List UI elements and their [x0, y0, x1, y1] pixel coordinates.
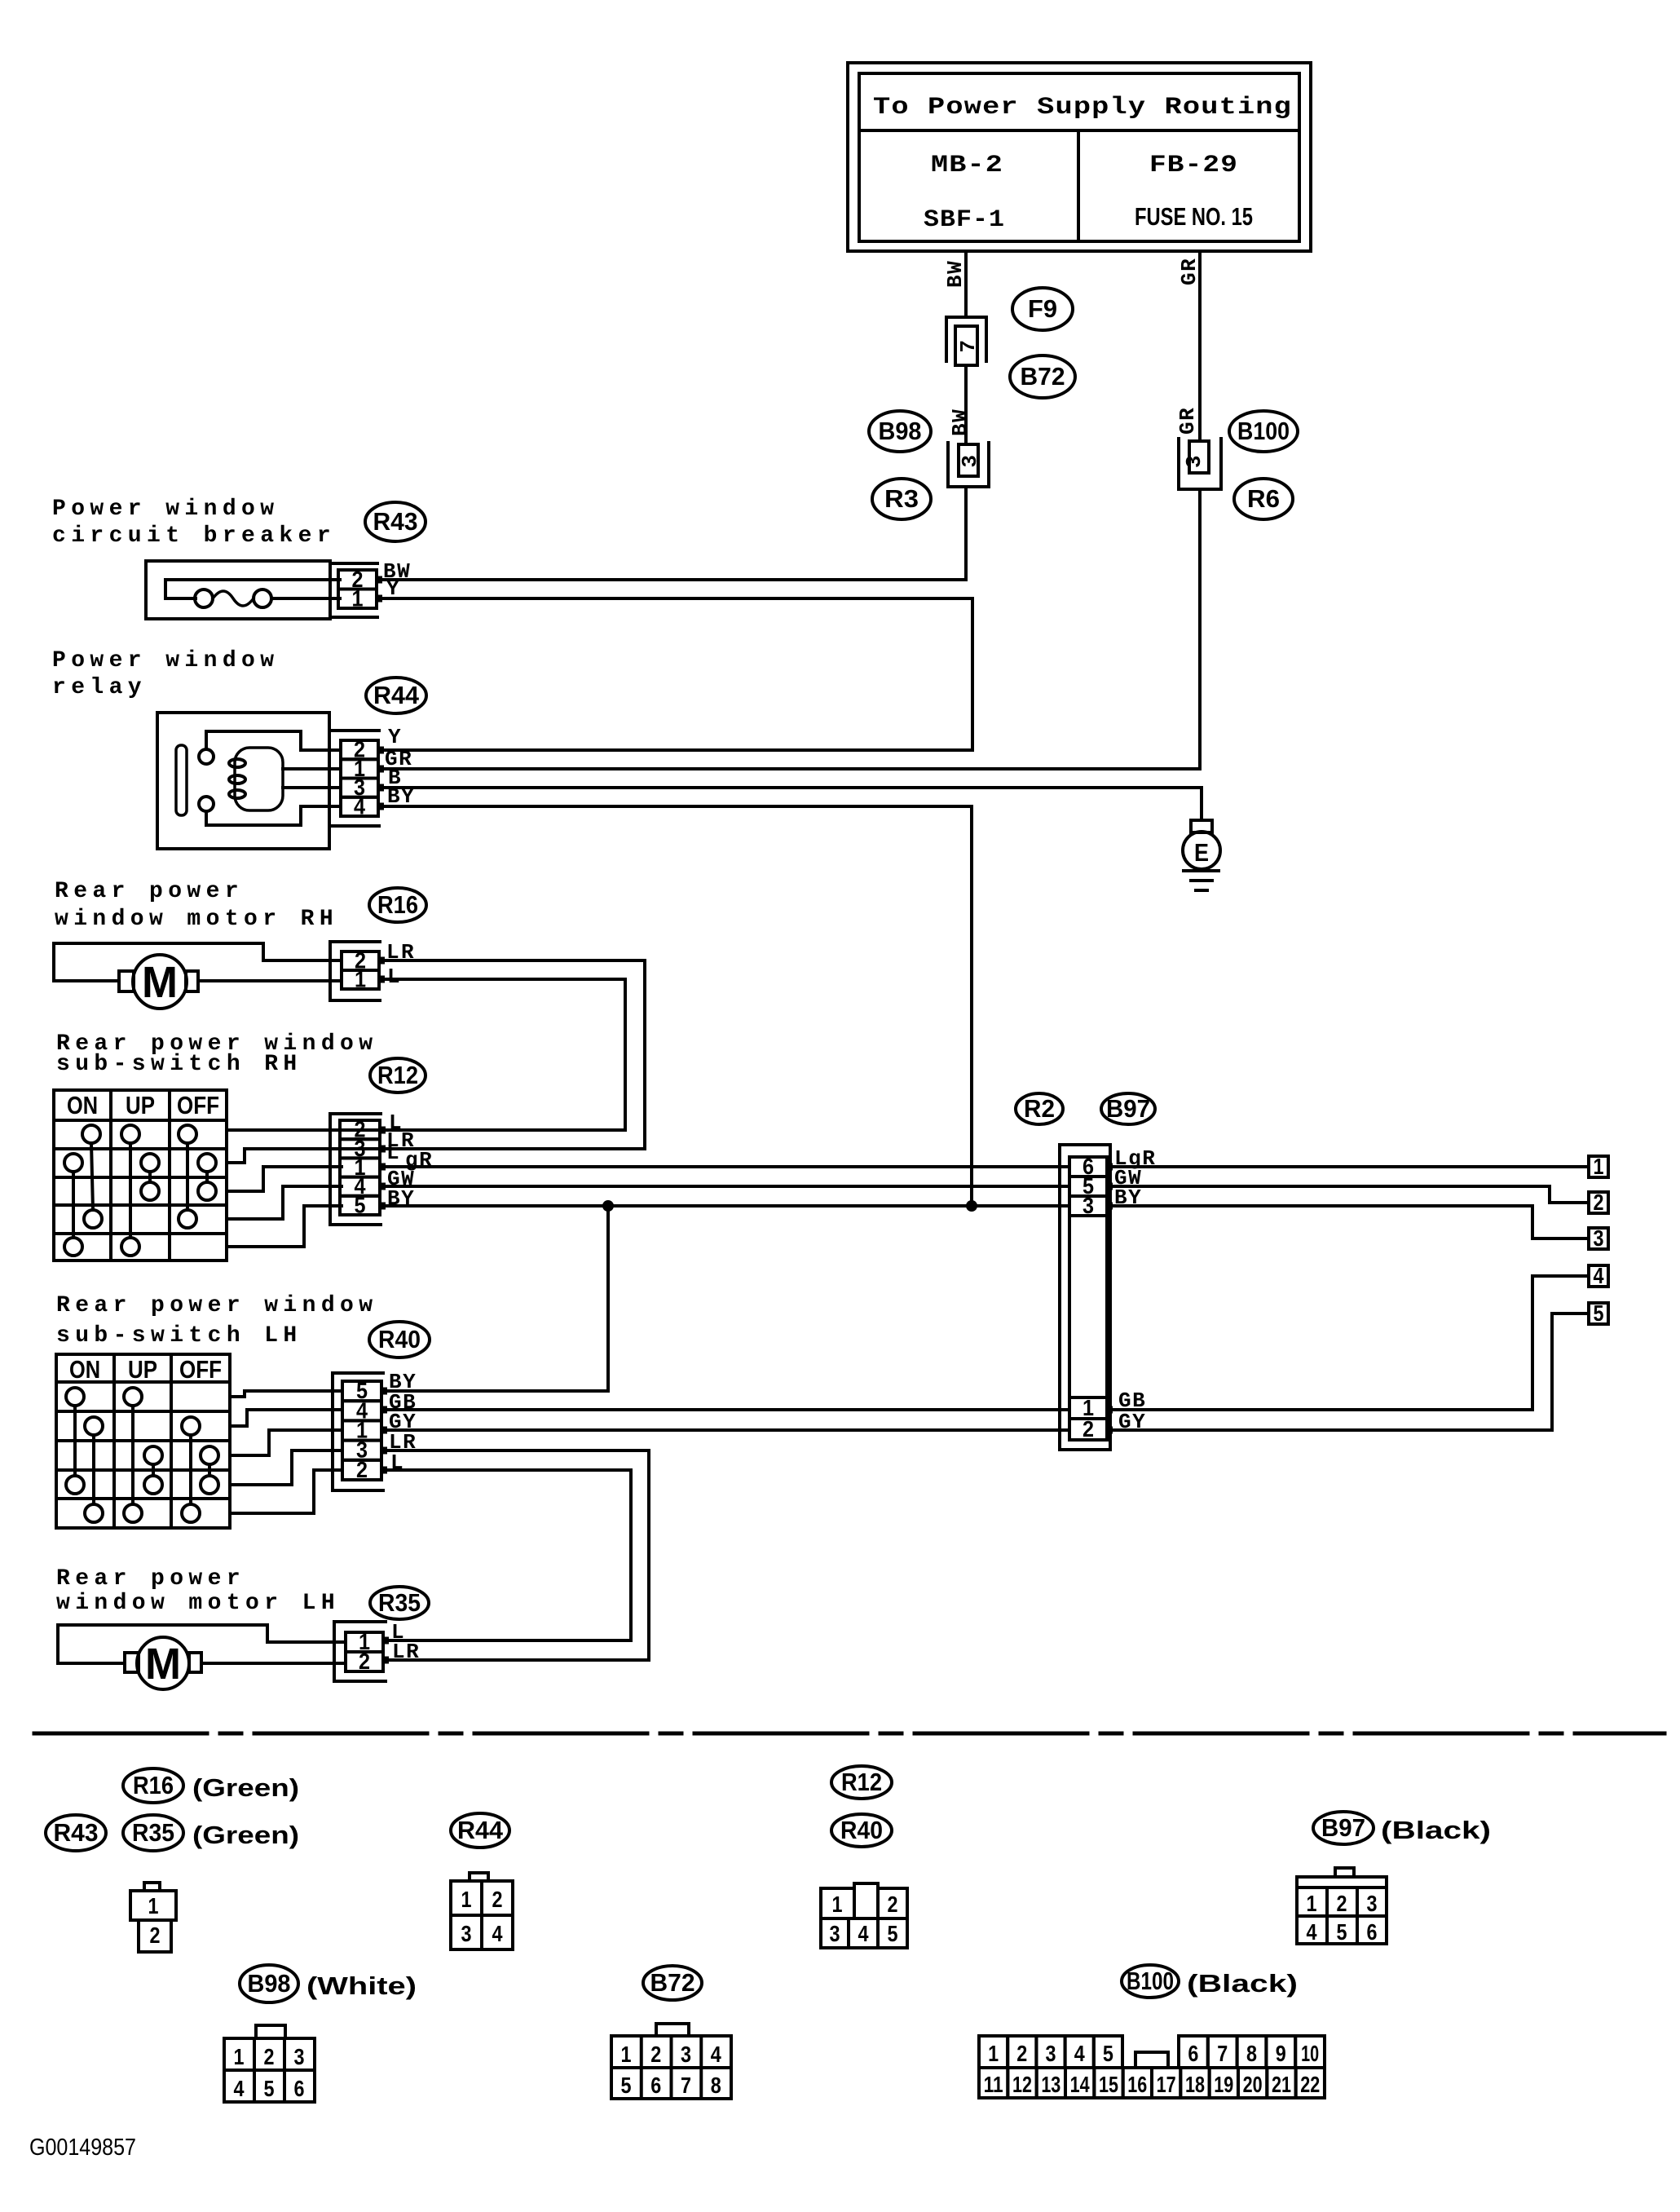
svg-text:12: 12 — [1012, 2072, 1032, 2097]
svg-text:1: 1 — [352, 585, 364, 611]
svg-text:B97: B97 — [1106, 1094, 1150, 1123]
svg-text:GR: GR — [1175, 407, 1200, 435]
svg-text:Power window: Power window — [52, 648, 279, 673]
svg-text:3: 3 — [958, 453, 982, 467]
svg-text:R2: R2 — [1024, 1094, 1055, 1123]
svg-text:(Black): (Black) — [1187, 1969, 1298, 1998]
svg-text:To Power Supply Routing: To Power Supply Routing — [873, 94, 1292, 121]
svg-text:Rear power: Rear power — [56, 1566, 245, 1592]
svg-text:4: 4 — [492, 1921, 503, 1946]
svg-text:GR: GR — [1177, 258, 1202, 285]
svg-text:L: L — [386, 1141, 400, 1165]
svg-text:Rear power window: Rear power window — [56, 1293, 377, 1318]
svg-text:F9: F9 — [1028, 294, 1057, 323]
svg-text:3: 3 — [830, 1921, 840, 1946]
svg-text:8: 8 — [1246, 2041, 1257, 2066]
svg-text:3: 3 — [1046, 2041, 1056, 2066]
svg-text:1: 1 — [148, 1893, 159, 1918]
svg-text:FUSE NO. 15: FUSE NO. 15 — [1135, 202, 1253, 231]
svg-text:R44: R44 — [457, 1816, 504, 1844]
svg-text:4: 4 — [858, 1921, 869, 1946]
svg-text:6: 6 — [1188, 2041, 1198, 2066]
svg-text:2: 2 — [1594, 1190, 1604, 1215]
svg-text:OFF: OFF — [177, 1091, 219, 1119]
svg-text:13: 13 — [1041, 2072, 1060, 2097]
svg-text:3: 3 — [461, 1921, 472, 1946]
svg-text:relay: relay — [52, 675, 147, 700]
svg-text:1: 1 — [1307, 1891, 1317, 1916]
svg-text:SBF-1: SBF-1 — [924, 206, 1005, 234]
svg-text:window motor RH: window motor RH — [55, 907, 338, 932]
svg-text:5: 5 — [355, 1192, 366, 1217]
svg-text:1: 1 — [1594, 1154, 1604, 1179]
svg-text:21: 21 — [1272, 2072, 1291, 2097]
svg-text:11: 11 — [984, 2072, 1003, 2097]
svg-text:16: 16 — [1127, 2072, 1147, 2097]
svg-text:B72: B72 — [650, 1968, 695, 1997]
svg-text:R16: R16 — [133, 1771, 174, 1799]
svg-text:5: 5 — [264, 2076, 275, 2101]
svg-text:3: 3 — [1182, 454, 1206, 468]
svg-text:R6: R6 — [1247, 484, 1280, 513]
svg-text:2: 2 — [359, 1649, 370, 1674]
svg-text:L: L — [387, 965, 401, 989]
svg-text:ON: ON — [67, 1091, 98, 1119]
svg-text:R12: R12 — [377, 1061, 418, 1089]
svg-text:Rear power: Rear power — [55, 879, 244, 904]
svg-text:Y: Y — [388, 725, 402, 749]
svg-text:2: 2 — [1016, 2041, 1027, 2066]
svg-text:22: 22 — [1300, 2072, 1320, 2097]
svg-text:20: 20 — [1243, 2072, 1263, 2097]
svg-text:R40: R40 — [378, 1325, 421, 1353]
svg-text:3: 3 — [1083, 1193, 1094, 1218]
svg-text:4: 4 — [1307, 1919, 1317, 1945]
svg-text:sub-switch RH: sub-switch RH — [56, 1052, 302, 1077]
svg-text:MB-2: MB-2 — [931, 152, 1003, 179]
svg-text:2: 2 — [650, 2042, 661, 2067]
svg-text:8: 8 — [711, 2073, 721, 2098]
svg-text:R43: R43 — [54, 1818, 99, 1847]
svg-text:5: 5 — [888, 1921, 898, 1946]
svg-text:9: 9 — [1276, 2041, 1286, 2066]
svg-text:1: 1 — [621, 2042, 632, 2067]
svg-text:2: 2 — [264, 2044, 275, 2069]
svg-text:1: 1 — [832, 1892, 843, 1917]
svg-text:4: 4 — [711, 2042, 721, 2067]
svg-text:5: 5 — [1103, 2041, 1113, 2066]
svg-text:R35: R35 — [132, 1818, 174, 1847]
svg-text:R3: R3 — [884, 484, 919, 513]
svg-text:LR: LR — [392, 1640, 420, 1664]
svg-text:4: 4 — [1594, 1263, 1604, 1288]
svg-text:14: 14 — [1070, 2072, 1090, 2097]
svg-text:10: 10 — [1301, 2041, 1319, 2066]
svg-text:2: 2 — [150, 1923, 161, 1948]
svg-text:4: 4 — [1074, 2041, 1085, 2066]
svg-text:5: 5 — [1337, 1919, 1347, 1945]
svg-text:ON: ON — [69, 1355, 100, 1384]
svg-text:4: 4 — [234, 2076, 245, 2101]
svg-text:5: 5 — [1594, 1300, 1604, 1326]
svg-text:(Green): (Green) — [192, 1821, 299, 1849]
svg-text:sub-switch LH: sub-switch LH — [56, 1323, 302, 1349]
svg-text:R12: R12 — [841, 1768, 882, 1796]
svg-text:(Black): (Black) — [1381, 1816, 1491, 1844]
svg-text:UP: UP — [128, 1355, 157, 1384]
svg-text:B97: B97 — [1321, 1813, 1365, 1842]
svg-text:3: 3 — [294, 2044, 305, 2069]
svg-text:UP: UP — [126, 1091, 155, 1119]
svg-text:M: M — [142, 958, 178, 1007]
svg-text:(White): (White) — [306, 1971, 417, 2000]
svg-text:18: 18 — [1185, 2072, 1205, 2097]
svg-text:B100: B100 — [1237, 417, 1290, 445]
svg-text:1: 1 — [355, 967, 366, 992]
svg-text:3: 3 — [681, 2042, 691, 2067]
svg-text:G00149857: G00149857 — [29, 2135, 136, 2161]
svg-text:window motor LH: window motor LH — [56, 1591, 340, 1616]
svg-text:1: 1 — [234, 2044, 245, 2069]
svg-text:6: 6 — [650, 2073, 661, 2098]
svg-text:7: 7 — [1217, 2041, 1228, 2066]
svg-text:2: 2 — [492, 1887, 503, 1912]
svg-text:2: 2 — [356, 1457, 368, 1482]
svg-text:5: 5 — [621, 2073, 632, 2098]
svg-text:(Green): (Green) — [192, 1773, 299, 1802]
svg-text:R43: R43 — [373, 507, 418, 536]
svg-text:BW: BW — [948, 408, 972, 436]
svg-text:Power window: Power window — [52, 497, 279, 522]
svg-text:B100: B100 — [1127, 1967, 1174, 1995]
svg-text:7: 7 — [681, 2073, 691, 2098]
svg-text:3: 3 — [1594, 1225, 1604, 1251]
svg-text:R40: R40 — [840, 1816, 883, 1844]
svg-text:B98: B98 — [879, 417, 922, 445]
svg-text:4: 4 — [354, 793, 365, 819]
svg-text:B98: B98 — [248, 1969, 291, 1998]
svg-text:FB-29: FB-29 — [1149, 152, 1238, 179]
svg-text:circuit breaker: circuit breaker — [52, 523, 336, 549]
svg-text:2: 2 — [888, 1892, 898, 1917]
svg-text:15: 15 — [1099, 2072, 1118, 2097]
svg-text:R44: R44 — [373, 681, 420, 709]
svg-text:3: 3 — [1367, 1891, 1378, 1916]
svg-text:6: 6 — [1367, 1919, 1378, 1945]
svg-text:OFF: OFF — [179, 1355, 222, 1384]
svg-text:7: 7 — [956, 338, 981, 352]
svg-text:2: 2 — [1337, 1891, 1347, 1916]
svg-text:6: 6 — [294, 2076, 305, 2101]
svg-text:R35: R35 — [378, 1588, 421, 1617]
svg-text:1: 1 — [988, 2041, 999, 2066]
svg-text:B72: B72 — [1021, 362, 1065, 391]
svg-text:17: 17 — [1157, 2072, 1176, 2097]
svg-text:BW: BW — [943, 260, 968, 288]
svg-text:1: 1 — [461, 1887, 472, 1912]
svg-text:R16: R16 — [377, 890, 418, 919]
svg-text:M: M — [145, 1640, 181, 1689]
svg-text:E: E — [1194, 838, 1209, 867]
svg-text:19: 19 — [1214, 2072, 1233, 2097]
svg-text:2: 2 — [1083, 1416, 1094, 1442]
